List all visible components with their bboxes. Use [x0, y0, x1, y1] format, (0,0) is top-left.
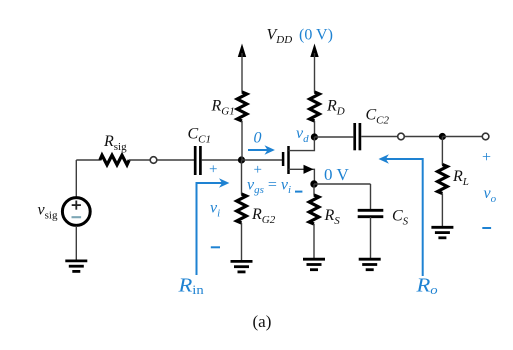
ground (R_S)	[303, 259, 325, 270]
output terminal open circle 2	[482, 133, 489, 140]
resistor R_G1	[237, 92, 247, 121]
supply arrow (R_G1 branch)	[238, 44, 246, 58]
svg-text:(a): (a)	[253, 312, 272, 331]
supply arrow (R_D branch)	[310, 44, 318, 58]
svg-text:+: +	[209, 162, 217, 178]
label minus (v_i)	[211, 246, 220, 248]
blue minus (output)	[482, 227, 491, 229]
wire: node to right terminal	[442, 136, 482, 138]
wire: R_G1 to gate node	[241, 121, 243, 160]
wire: C_C1 to gate node	[202, 159, 242, 161]
resistor R_D	[310, 92, 320, 121]
wire: source node down to R_S	[313, 184, 315, 196]
MOSFET source arrowhead	[304, 165, 314, 174]
capacitor C_C1	[194, 146, 197, 175]
resistor R_L	[438, 165, 448, 194]
input terminal open circle	[150, 157, 157, 164]
wire: C_S bottom plate to ground	[370, 217, 372, 259]
capacitor C_C2	[353, 123, 356, 150]
wire: R_S to ground	[313, 224, 315, 259]
wire: gate node down to R_G2	[241, 160, 243, 195]
wire: vsig bottom to ground	[75, 226, 77, 261]
wire: terminal to R_L node	[404, 136, 442, 138]
svg-text:+: +	[482, 149, 491, 166]
ground (C_S)	[359, 259, 381, 270]
node drain v_d	[311, 133, 318, 140]
blue current arrow at gate	[248, 149, 268, 151]
wire: terminal to C_C1	[157, 159, 194, 161]
wire: drain node to C_C2	[314, 136, 353, 138]
ground (v_sig)	[65, 261, 87, 272]
wire: C_C2 to output terminal circle	[361, 136, 398, 138]
wire: gate node to MOSFET gate	[242, 159, 284, 161]
wire: Rsig to input terminal circle	[129, 159, 150, 161]
resistor R_G2	[237, 194, 247, 223]
ground (R_G2)	[231, 261, 253, 272]
svg-text:0 V: 0 V	[324, 165, 349, 184]
capacitor C_S	[358, 209, 384, 212]
svg-text:(0 V): (0 V)	[299, 27, 333, 44]
resistor R_S	[309, 195, 319, 224]
R_in measurement arrow	[197, 183, 225, 275]
MOSFET source connection	[289, 169, 315, 184]
svg-text:vgs = vi: vgs = vi	[247, 177, 291, 197]
wire: C_S branch down to top plate	[370, 184, 372, 210]
wire: R_G2 to ground	[241, 223, 243, 261]
wire: source node to C_S branch	[314, 183, 371, 185]
MOSFET Q1 gate bar	[282, 152, 285, 166]
node gate junction	[238, 156, 245, 163]
wire: vsig top to main input line	[75, 160, 77, 198]
ground (R_L)	[431, 227, 453, 238]
node source	[310, 180, 317, 187]
svg-text:0: 0	[254, 130, 262, 147]
voltage source v_sig	[62, 198, 90, 226]
output terminal open circle 1	[398, 133, 405, 140]
MOSFET Q1 channel bar	[287, 146, 290, 174]
wire: main input line vsig to Rsig	[76, 159, 100, 161]
resistor R_sig	[100, 155, 129, 165]
R_o measurement arrow	[384, 159, 423, 276]
node R_L top	[439, 133, 446, 140]
wire: R_L node down	[441, 137, 443, 166]
MOSFET drain connection	[289, 137, 315, 151]
wire: R_L to ground	[441, 194, 443, 228]
wire: R_D to drain node	[314, 121, 316, 137]
svg-text:+: +	[254, 162, 262, 178]
